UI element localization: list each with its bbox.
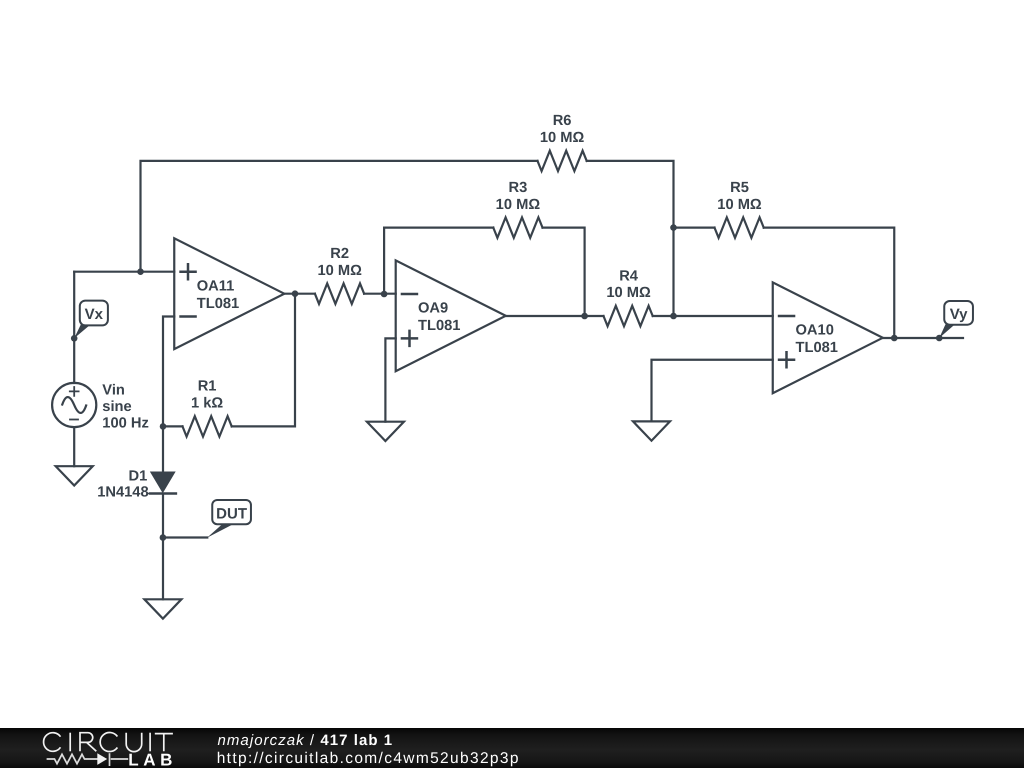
svg-text:nmajorczak / 417 lab 1: nmajorczak / 417 lab 1 xyxy=(218,732,394,749)
svg-text:LAB: LAB xyxy=(128,750,177,768)
svg-text:http://circuitlab.com/c4wm52ub: http://circuitlab.com/c4wm52ub32p3p xyxy=(217,750,520,767)
